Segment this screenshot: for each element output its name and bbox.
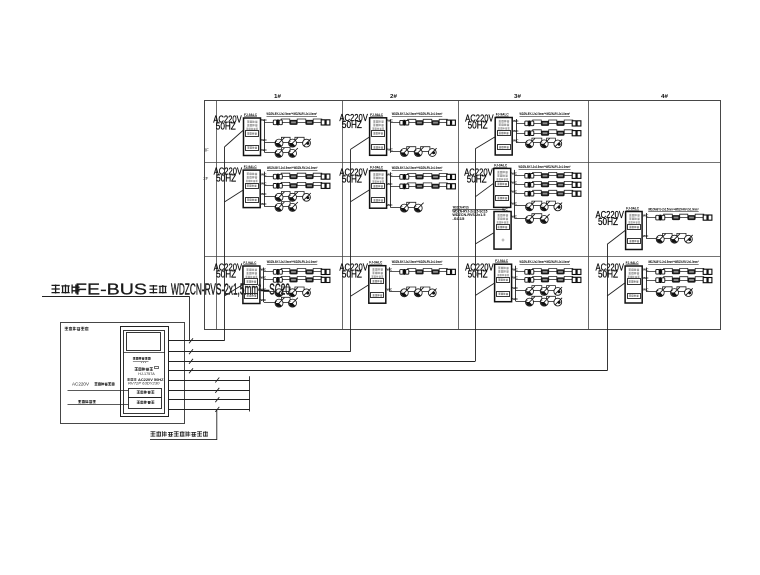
wire speaker branch (B1F1.c) [264,291,275,293]
wall speaker B3F1.b.4 [572,277,576,282]
svg-text:WDZN-BYJ-2x2.5mm²+WDZN-RV-2x1.: WDZN-BYJ-2x2.5mm²+WDZN-RV-2x1.0mm² [648,208,699,212]
svg-text:WC: WC [261,118,267,122]
module output bus [515,266,517,301]
wire jumper [549,269,557,271]
spare zone circuit wire 3 [169,399,250,401]
wire jumper [295,137,304,140]
ceiling speaker B2F3.b.3 [428,149,436,157]
grid column divider 3-4 [588,101,590,330]
svg-text:FE-BUS: FE-BUS [75,282,147,299]
module output bus [389,267,391,292]
wire jumper [313,119,322,121]
wall speaker B3F1.b.1 [525,278,528,283]
module M2-2 inner terminal box A [372,184,385,189]
wire jumper [423,269,432,271]
audio power amplifier box [129,398,162,409]
wire jumper [547,201,556,204]
wall speaker B2F1.a.1 [400,270,403,275]
broadcast module M2-3 [370,118,387,156]
ceiling speaker B3F1.c.1 [526,287,534,295]
module M2-3 inner terminal box A [372,131,385,137]
svg-text:WC: WC [261,148,267,152]
wall speaker B3F3.b.3 [556,131,564,136]
line control signal label [78,400,81,403]
wall speaker B3F2.a.2 [541,173,549,178]
wire segment [283,302,289,304]
wall speaker B1F2.b.2 [289,183,297,188]
wall speaker B3F1.a.4 [572,269,576,274]
wire jumper [439,174,447,176]
broadcast module M1-1 [243,266,260,304]
ceiling speaker B3F1.c.3 [554,288,562,296]
svg-text:WDZN-BYJ-2x2.5mm²+WDZN-RV-2x1.: WDZN-BYJ-2x2.5mm²+WDZN-RV-2x1.0mm² [267,166,318,170]
svg-text:WC: WC [261,172,267,176]
spare zone circuit wire 1 [169,380,250,382]
wire jumper [664,277,673,279]
module M3-2B inner terminal box A [497,225,510,230]
wire jumper [695,214,704,216]
wire jumper [281,297,290,300]
wire segment [283,196,289,198]
wall speaker B3F3.a.3 [556,121,564,126]
wire jumper [549,130,557,132]
grid floor divider 2F/1F [204,256,721,258]
wire speaker branch (B2F1.b) [390,291,401,293]
trunk cable label leader drop [189,297,191,342]
wire jumper [281,119,290,121]
svg-text:3#: 3# [514,94,521,100]
svg-text:50HZ: 50HZ [342,174,362,185]
riser building3 [475,149,477,361]
svg-text:WDZN-BYJ-2x2.5mm²+WDZN-RV-2x1.: WDZN-BYJ-2x2.5mm²+WDZN-RV-2x1.0mm² [392,260,443,264]
svg-text:WDZN-BYJ-2x2.5mm²+WDZN-RV-2x1.: WDZN-BYJ-2x2.5mm²+WDZN-RV-2x1.0mm² [392,112,443,116]
svg-text:WC: WC [387,173,393,177]
ceiling speaker B3F1.d.3 [554,298,562,306]
wire speaker branch (B1F3.c) [265,152,276,154]
wire jumper [664,214,673,216]
riser tap diagonal B3F3 [475,137,495,149]
wire speaker branch (B1F2.d) [264,206,275,208]
wall speaker B2F2.a.2 [415,174,423,179]
broadcast module M3-3 [495,118,512,156]
wire jumper [439,269,447,271]
ceiling speaker B1F1.c.1 [275,289,283,297]
riser tap diagonal B1F2 [224,190,243,202]
wire jumper [297,269,306,271]
wire jumper [549,277,557,279]
riser tap diagonal B2F3 [351,137,370,150]
svg-text:WC: WC [512,202,518,206]
wire jumper [423,183,432,185]
wall speaker B2F2.b.4 [447,184,451,189]
riser tap diagonal B4F2 [607,230,626,244]
module output bus [646,213,648,238]
wall speaker B2F3.a.4 [447,120,451,125]
svg-text:WC: WC [643,213,649,217]
broadcast module M4-1 [625,266,642,303]
riser building1 [224,147,226,341]
svg-text:WC: WC [513,139,519,143]
ceiling speaker B1F2.c.1 [275,193,283,201]
wall speaker B1F2.a.4 [321,174,325,179]
wire segment [548,290,554,292]
wire segment [283,291,289,293]
wall speaker B1F3.a.3 [305,120,313,125]
wall speaker B3F2.b.3 [556,182,564,187]
wall speaker B3F3.a.2 [541,121,549,126]
wire jumper [663,233,673,236]
wire speaker branch (B2F1.a) [390,271,456,273]
svg-text:WC: WC [502,207,508,211]
wall speaker B3F2.b.1 [525,183,528,188]
ceiling speaker B3F1.d.2 [540,298,548,306]
wire jumper [408,183,416,185]
wall speaker B1F2.b.3 [305,183,313,188]
wall speaker B2F1.a.3 [431,269,439,274]
ceiling speaker B1F3.c.2 [289,149,297,157]
wire jumper [408,174,416,176]
module M1-1 inner terminal box A [245,279,258,285]
svg-text:WDZCN-RVS-2x1,5mm²—SC20: WDZCN-RVS-2x1,5mm²—SC20 [171,282,290,299]
svg-text:WDZN-BYJ-2x2.5mm²+WDZN-RV-2x1.: WDZN-BYJ-2x2.5mm²+WDZN-RV-2x1.0mm² [520,260,571,264]
wire speaker branch (B4F1.b) [646,280,712,282]
wire jumper [533,172,542,174]
svg-text:3F: 3F [204,148,209,153]
ceiling speaker B1F1.d.1 [275,299,283,307]
svg-text:WDZN-BYJ-2x2.5mm²+WDZN-RV-2x1.: WDZN-BYJ-2x2.5mm²+WDZN-RV-2x1.0mm² [648,260,699,264]
cabinet display panel [127,333,161,351]
svg-text:50HZ: 50HZ [342,269,362,280]
svg-text:50HZ: 50HZ [598,269,618,280]
svg-text:WC: WC [387,203,393,207]
wall speaker B1F3.a.2 [289,120,297,125]
ceiling speaker B1F3.b.1 [275,139,283,147]
control signal wire [68,404,129,406]
wire jumper [547,138,556,141]
wire jumper [281,277,290,279]
module M3-1 inner terminal box B [497,292,510,297]
wall speaker B3F2.b.4 [572,182,576,187]
wire jumper [281,173,290,175]
wire jumper [695,277,704,279]
module M2-2 inner terminal box B [372,198,385,203]
wire slash mark [189,349,193,354]
broadcast module M2-2 [370,171,387,209]
wire jumper [407,202,416,205]
broadcast module M1-2 [243,170,260,208]
svg-text:50HZ: 50HZ [216,121,236,132]
wire jumper [297,173,306,175]
module M1-2 inner terminal box B [246,198,259,203]
wire speaker branch (B3F1.b) [516,279,581,281]
ceiling speaker B3F2.d.2 [540,203,548,211]
wall speaker B1F2.b.4 [321,183,325,188]
ceiling speaker B2F2.c.2 [414,204,422,212]
ceiling speaker B3F2.e.2 [540,216,548,224]
wire jumper [439,119,447,121]
wall speaker B4F2.a.4 [703,215,707,220]
wire speaker branch (B1F1.d) [264,302,275,304]
wall speaker B2F3.a.1 [400,120,403,125]
wall speaker B2F2.b.2 [415,184,423,189]
wire jumper [423,119,432,121]
wire jumper [677,287,686,290]
wire speaker branch (B1F2.c) [264,196,275,198]
svg-text:HJ-1757A: HJ-1757A [138,372,156,376]
wire jumper [533,130,542,132]
wall speaker B1F2.b.1 [273,184,276,189]
wire jumper [532,296,542,299]
wire segment [548,205,554,207]
svg-text:WC: WC [512,286,518,290]
cabinet panel divider [124,352,166,354]
wall speaker B4F2.a.2 [672,215,680,220]
broadcast module M3-2B [494,212,511,250]
ceiling speaker B1F3.b.3 [303,139,311,147]
wire segment [664,291,671,293]
wire jumper [533,181,542,183]
wire speaker branch (B1F3.a) [265,122,330,124]
wire jumper [564,190,573,192]
room name label (fire control centre) [65,327,68,331]
wire segment [678,238,685,240]
wire segment [422,291,429,293]
wall speaker B2F2.b.3 [431,184,439,189]
module M4-2 inner terminal box A [628,225,641,230]
wall speaker B3F3.a.1 [525,121,528,126]
wire jumper [281,148,290,151]
riser tap diagonal B1F3 [224,130,243,147]
ceiling speaker B2F3.b.1 [400,149,408,157]
wire speaker branch (B3F1.a) [516,271,581,273]
module M3-3 inner terminal box B [498,145,511,150]
svg-text:FJ-9ALC: FJ-9ALC [494,163,508,167]
svg-text:WC: WC [512,214,518,218]
wire jumper [313,173,322,175]
wall speaker B3F2.c.3 [556,191,564,196]
ceiling speaker B4F1.c.1 [656,289,664,297]
module output bus [390,119,392,153]
wire jumper [532,286,542,289]
ceiling speaker B4F2.b.1 [656,235,664,243]
svg-text:FJ-9ALC: FJ-9ALC [370,166,384,170]
ceiling speaker B1F2.d.2 [289,203,297,211]
wire jumper [297,182,306,184]
wire jumper [313,277,322,279]
svg-text:WDZN-BYJ-2x2.5mm²+WDZN-RV-2x1.: WDZN-BYJ-2x2.5mm²+WDZN-RV-2x1.0mm² [267,260,318,264]
ceiling speaker B1F1.d.2 [289,299,297,307]
broadcast distributor box [129,389,162,398]
wall speaker B2F2.a.3 [431,174,439,179]
module M4-1 inner terminal box A [628,279,641,285]
mains wire [68,390,129,392]
wire segment [664,238,671,240]
svg-text:-SC15: -SC15 [452,217,464,221]
wall speaker B2F2.b.1 [400,184,403,189]
wire slash mark [189,359,193,364]
broadcast module M3-1 [495,264,512,302]
wire jumper [680,277,688,279]
module M2-3 inner terminal box B [372,145,385,150]
wall speaker B1F2.a.3 [305,174,313,179]
svg-text:50HZ: 50HZ [467,174,487,185]
wire jumper [532,138,542,141]
svg-text:WC: WC [513,129,519,133]
svg-text:2F: 2F [203,176,208,181]
wire jumper [408,119,416,121]
wall speaker B2F1.a.2 [415,269,423,274]
spare zone circuit wire 4 [169,409,250,411]
feed wire to building2 riser [169,351,351,353]
ceiling speaker B3F1.c.2 [540,287,548,295]
ceiling speaker B2F3.b.2 [414,149,422,157]
svg-text:2#: 2# [390,94,397,100]
wire speaker branch (B4F1.c) [646,291,656,293]
ceiling speaker B4F1.c.3 [685,289,693,297]
svg-text:WDZN-BYJ-2x2.5mm²+WDZN-RV-2x1.: WDZN-BYJ-2x2.5mm²+WDZN-RV-2x1.0mm² [520,112,571,116]
wire speaker branch (B4F2.b) [646,238,656,240]
wire speaker branch (B2F3.a) [391,122,456,124]
svg-text:WC: WC [643,234,649,238]
wire segment [548,142,554,144]
wire jumper [281,269,290,271]
wall speaker B3F3.b.4 [572,131,576,136]
wall speaker B3F2.c.1 [525,191,528,196]
grid column divider 1-2 [342,101,344,330]
ceiling speaker B2F1.b.1 [400,289,408,297]
broadcast module M2-1 [369,266,386,304]
svg-text:WDZN-BYJ-2x2.5mm²+WDZN-RV-2x1.: WDZN-BYJ-2x2.5mm²+WDZN-RV-2x1.0mm² [519,165,572,169]
broadcast control cabinet inner [124,331,165,414]
wire jumper [533,269,542,271]
ceiling speaker B2F1.b.2 [414,289,422,297]
svg-text:FJ-9ALC: FJ-9ALC [370,113,384,117]
broadcast module M4-2 [626,212,643,250]
module output bus [264,172,266,207]
riser tap diagonal B2F2 [351,190,370,202]
wall speaker B4F1.a.4 [703,269,707,274]
wire segment [408,291,415,293]
broadcast module M3-2A [494,168,511,207]
wall speaker B3F2.a.4 [572,173,576,178]
module M4-2 inner terminal box B [628,239,641,244]
wire segment [283,152,289,154]
wire jumper [549,172,557,174]
riser tap diagonal B1F1 [224,285,243,297]
wire segment [533,290,541,292]
wall speaker B3F3.b.2 [541,131,549,136]
riser tap diagonal B2F1 [351,285,369,296]
trunk cable label leader line [42,296,190,298]
module output bus [263,268,265,303]
wire segment [533,218,541,220]
wall speaker B4F1.b.4 [703,278,707,283]
wall speaker B3F2.a.1 [525,174,528,179]
wire jumper [549,120,557,122]
ceiling speaker B3F2.d.3 [554,203,562,211]
svg-text:FJ-9ALC: FJ-9ALC [626,207,640,211]
wall speaker B4F2.a.1 [656,215,659,220]
ceiling speaker B1F2.d.1 [275,203,283,211]
grid inner vertical line (floor label column) [216,101,218,330]
wire segment [533,142,541,144]
module output bus [514,170,516,219]
ceiling speaker B1F1.c.2 [289,289,297,297]
wall speaker B2F3.a.3 [431,120,439,125]
wall speaker B1F2.a.1 [273,174,276,179]
wire speaker branch (B1F2.a) [264,176,330,178]
ceiling speaker B3F3.c.3 [554,140,562,148]
ceiling speaker B3F2.d.1 [526,203,534,211]
wall speaker B1F1.a.3 [305,269,313,274]
broadcast control cabinet outer [121,327,169,417]
broadcast module M1-3 [244,118,261,156]
wire segment [283,206,289,208]
module output bus [390,172,392,207]
ceiling speaker B1F1.c.3 [303,289,311,297]
wire jumper [680,268,688,270]
cabinet rating text [127,378,130,381]
wall speaker B3F2.b.2 [541,182,549,187]
wire jumper [695,268,704,270]
wire segment [422,151,429,153]
svg-text:WC: WC [512,297,518,301]
wall speaker B3F1.a.1 [525,270,528,275]
wire jumper [532,214,542,217]
wall speaker B1F3.a.4 [321,120,325,125]
ceiling speaker B1F2.c.3 [303,193,311,201]
module M1-3 inner terminal box B [246,146,259,151]
wire segment [296,142,303,144]
wire speaker branch (B3F2.c) [515,193,581,195]
wire speaker branch (B3F3.c) [516,142,526,144]
wire jumper [295,192,304,195]
wall speaker B1F1.a.4 [321,269,325,274]
svg-text:FJ-9ALC: FJ-9ALC [369,261,383,265]
module output bus [516,119,518,143]
svg-text:50HZ: 50HZ [342,120,362,131]
wire jumper [297,277,306,279]
wall speaker B3F1.b.3 [556,277,564,282]
module M4-1 inner terminal box B [628,294,641,299]
building outline grid frame [205,101,721,330]
wall speaker B3F1.b.2 [541,277,549,282]
wire jumper [564,130,573,132]
svg-text:WC: WC [261,138,267,142]
mains source label (fire centre power) [95,382,98,385]
module M3-2A inner terminal box A [496,182,509,187]
svg-text:WC: WC [261,298,267,302]
wire speaker branch (B2F3.b) [391,151,401,153]
trunk cable label text (FE-BUS WDZCN-RVS-2x1.5mm2-SC20) [52,285,60,294]
wire jumper [564,120,573,122]
wire speaker branch (B1F3.b) [265,142,276,144]
wire to amplifier module [452,209,504,211]
wire jumper [533,277,542,279]
wall speaker B4F1.a.2 [672,269,680,274]
svg-text:WC: WC [513,119,519,123]
wire jumper [421,287,430,290]
wire jumper [313,269,322,271]
module M1-2 inner terminal box A [246,184,259,189]
wire jumper [281,287,290,290]
svg-text:50HZ: 50HZ [216,173,236,184]
wire jumper [564,277,573,279]
module M3-3 inner terminal box A [498,131,511,136]
wire segment [678,291,685,293]
svg-text:RV72P 63DY230: RV72P 63DY230 [128,382,160,386]
wire jumper [439,183,447,185]
